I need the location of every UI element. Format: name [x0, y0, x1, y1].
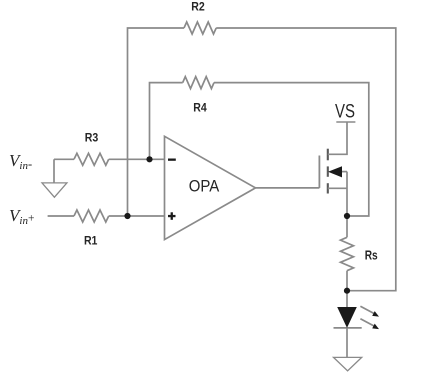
svg-text:Vin+: Vin+ — [9, 206, 34, 227]
svg-text:R3: R3 — [85, 130, 99, 144]
wire R4 left lead and vertical to - input node — [150, 83, 183, 160]
node: source junction — [344, 213, 350, 219]
transistor Q1 body diode arrow — [328, 166, 342, 177]
LED light arrow 1 shaft — [360, 306, 374, 314]
op-amp plus mark (horizontal) — [168, 215, 176, 217]
wire Vin- to R3 with ground drop — [54, 158, 74, 160]
VS supply bar — [336, 121, 355, 123]
svg-text:Vin-: Vin- — [9, 151, 32, 172]
ground symbol below Vin- — [42, 183, 67, 197]
svg-text:R2: R2 — [191, 0, 205, 14]
transistor Q1 source lead — [328, 187, 347, 189]
LED light arrow 1 head — [372, 311, 379, 317]
svg-text:VS: VS — [335, 101, 355, 122]
node: minus input junction — [146, 156, 152, 162]
LED D1 triangle — [337, 307, 357, 328]
svg-text:R1: R1 — [84, 233, 98, 247]
wire R1 to op-amp plus input — [109, 215, 164, 217]
wire R3 to op-amp minus input — [109, 158, 164, 160]
transistor Q1 body lead — [340, 171, 347, 173]
wire R2 left lead and left vertical to + input node — [128, 28, 185, 216]
transistor Q1 channel segments — [327, 149, 329, 194]
svg-text:R4: R4 — [193, 101, 207, 115]
wire R2 right lead down right side to LED node — [216, 28, 396, 291]
resistor R1 — [74, 210, 109, 222]
wire ground stem below Vin- — [53, 159, 55, 183]
svg-text:Rs: Rs — [365, 248, 378, 263]
wire Vin+ to R1 — [48, 215, 74, 217]
wire source down to Rs — [346, 172, 348, 238]
op-amp minus mark — [168, 159, 176, 161]
transistor Q1 drain lead — [328, 122, 347, 154]
transistor Q1 gate plate — [318, 156, 320, 188]
ground symbol below LED — [334, 357, 362, 370]
resistor Rs — [341, 237, 354, 270]
node: LED junction — [344, 288, 350, 294]
wire LED to ground — [346, 328, 348, 358]
resistor R3 — [74, 153, 109, 165]
node: plus input junction — [124, 213, 130, 219]
wire op-amp output to MOSFET gate — [256, 187, 320, 189]
svg-text:OPA: OPA — [189, 177, 220, 196]
wire Rs to LED — [346, 271, 348, 307]
resistor R4 — [183, 77, 214, 89]
LED light arrow 2 head — [372, 324, 379, 330]
op-amp U1 triangle — [165, 136, 256, 239]
LED light arrow 2 shaft — [360, 319, 374, 327]
wire R4 right lead down to source node — [214, 83, 369, 216]
LED cathode bar — [334, 327, 362, 329]
resistor R2 — [184, 22, 216, 34]
op-amp plus mark (vertical) — [171, 212, 173, 220]
